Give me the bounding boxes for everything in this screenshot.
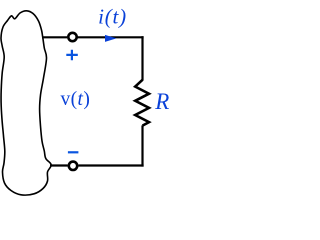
svg-text:v(t): v(t)	[61, 89, 91, 110]
resistor R zigzag	[135, 80, 149, 126]
current arrow	[105, 35, 116, 42]
wire bottom: corner to terminal	[79, 164, 144, 166]
wire top: blob to terminal	[42, 36, 67, 38]
terminal top (open circle)	[68, 33, 76, 41]
svg-text:R: R	[154, 89, 169, 114]
minus sign	[68, 151, 79, 153]
svg-text:i(t): i(t)	[98, 4, 127, 28]
plus sign	[66, 50, 78, 61]
wire bottom: terminal to blob	[50, 164, 68, 166]
wire right vertical top	[141, 36, 143, 80]
arbitrary network blob	[1, 11, 51, 195]
wire top: terminal to corner	[78, 36, 144, 38]
wire right vertical bottom	[141, 125, 143, 166]
terminal bottom (open circle)	[69, 162, 77, 170]
